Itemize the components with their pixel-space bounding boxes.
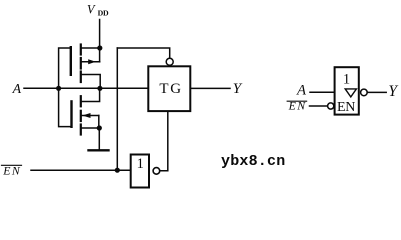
- wire A input (right): [310, 91, 335, 93]
- transistor Q1 (PMOS): [71, 45, 100, 89]
- label EN-bar (right): [287, 98, 306, 112]
- bulk stub with arrow: [81, 61, 100, 63]
- svg-text:A: A: [296, 83, 307, 99]
- bubble output (right): [361, 89, 368, 96]
- bulk to source wire: [98, 116, 100, 129]
- svg-text:TG: TG: [159, 81, 182, 97]
- svg-text:Y: Y: [388, 83, 398, 100]
- wire source to ground: [98, 128, 100, 150]
- svg-text:EN: EN: [288, 98, 307, 112]
- svg-text:EN: EN: [337, 100, 355, 115]
- svg-text:1: 1: [137, 156, 144, 172]
- gate bar: [70, 101, 72, 126]
- wire EN input (right): [310, 105, 328, 107]
- wire EN input: [31, 169, 131, 171]
- source stub: [81, 47, 100, 49]
- node A gate junction: [56, 86, 61, 91]
- node drain junction: [97, 86, 102, 91]
- bubble TG top: [166, 58, 173, 65]
- node Q2 source junction: [97, 125, 102, 130]
- bubble EN input (right): [328, 103, 334, 109]
- source stub: [81, 127, 100, 129]
- channel dashes: [80, 96, 82, 106]
- gate bar: [70, 47, 72, 75]
- power VDD label: [87, 2, 109, 17]
- wire top loop to TG bubble: [117, 48, 169, 58]
- op-amp U1 TG box: [148, 66, 190, 111]
- svg-text:V: V: [87, 2, 96, 16]
- wire TG bottom to inverter output: [160, 111, 168, 171]
- label EN-bar: [2, 163, 22, 177]
- svg-text:ybx8.cn: ybx8.cn: [221, 153, 285, 170]
- svg-text:Y: Y: [233, 81, 243, 97]
- node Q1 source junction: [97, 45, 102, 50]
- bubble U2 output: [153, 168, 160, 175]
- svg-text:A: A: [12, 81, 22, 96]
- ground: [89, 149, 109, 151]
- wire VDD to Q1 source: [99, 20, 101, 49]
- drain stub: [81, 88, 100, 101]
- channel dashes: [80, 45, 82, 55]
- transistor Q2 (NMOS): [72, 88, 100, 134]
- bulk stub with arrow: [81, 115, 99, 117]
- node EN junction: [115, 168, 120, 173]
- triangle tri-state qualifier: [345, 89, 356, 97]
- wire TG output Y: [190, 87, 230, 89]
- wire A to TG: [24, 87, 148, 89]
- wire EN bus vertical: [116, 48, 118, 170]
- bulk to source wire: [99, 48, 101, 62]
- wire Y output (right): [367, 91, 386, 93]
- inverter U2 box: [131, 155, 149, 188]
- drain stub: [81, 75, 100, 89]
- buffer U3 box (IEC tri-state symbol): [335, 67, 359, 114]
- svg-text:1: 1: [343, 72, 350, 88]
- wire gate bus: [59, 48, 72, 127]
- svg-text:DD: DD: [98, 8, 109, 17]
